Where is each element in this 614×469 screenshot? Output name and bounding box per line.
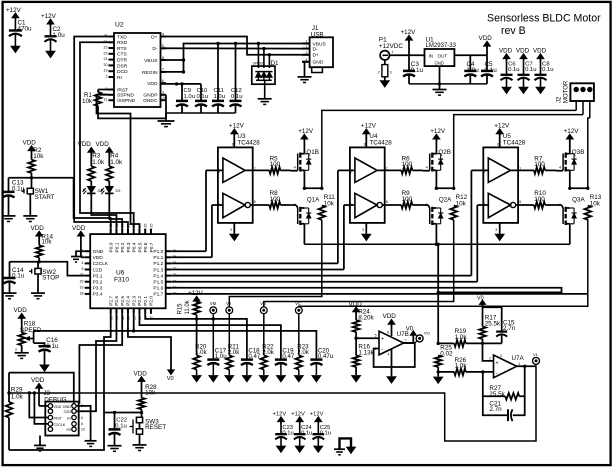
U4 buffer A (355, 158, 377, 182)
svg-text:4: 4 (388, 353, 390, 357)
resistor R20 1.0k (193, 355, 200, 369)
resistor R1 10k (98, 89, 109, 91)
wire P1.4 to U5 inA (171, 275, 471, 277)
U2 pin DTR (109, 59, 115, 61)
U6 pin P1.0 (166, 250, 172, 252)
svg-text:20: 20 (80, 279, 84, 283)
svg-text:P3.4: P3.4 (93, 292, 103, 298)
svg-text:Sensorless BLDC Motor: Sensorless BLDC Motor (487, 13, 601, 25)
+12V power arrow Q3B (566, 134, 573, 139)
svg-text:2: 2 (378, 71, 380, 75)
net tie jumper (340, 438, 352, 449)
+12V power arrow U4 (363, 129, 370, 134)
svg-text:2.7n: 2.7n (503, 325, 516, 332)
svg-text:+12V: +12V (564, 128, 580, 135)
U2 pin D+ (161, 36, 167, 38)
test point V1 (533, 357, 540, 364)
wire cap ground rail (166, 112, 236, 114)
wire motor phase rail 2 (454, 115, 583, 189)
svg-text:D+: D+ (151, 34, 158, 40)
svg-text:1.0k: 1.0k (455, 334, 468, 341)
ground under U2 (165, 118, 167, 121)
svg-text:Q3A: Q3A (572, 197, 585, 204)
test point VO (416, 335, 423, 342)
VDD power arrow R24 (353, 307, 360, 312)
wire phase B to VB (264, 220, 454, 307)
resistor R3 1.0k (90, 152, 92, 167)
svg-text:1.0k: 1.0k (195, 349, 207, 356)
J1 pin GND (302, 61, 310, 63)
svg-text:6: 6 (81, 416, 83, 420)
U3 buffer A (223, 158, 245, 182)
U6 pin P2.5 (121, 308, 123, 314)
wire U5 inputs (471, 169, 488, 171)
J1 pin D+ (302, 54, 310, 56)
U2 pin /RST (109, 89, 115, 91)
svg-text:1.13k: 1.13k (358, 349, 374, 356)
wire P1 to U1 IN (389, 54, 425, 56)
svg-text:Q1A: Q1A (307, 197, 320, 204)
LED D3 (108, 181, 110, 186)
wire P2.5 to J3 (79, 314, 122, 404)
svg-text:5: 5 (386, 200, 388, 204)
svg-text:VDD: VDD (147, 81, 158, 87)
resistor R17 25.5k (479, 327, 486, 340)
capacitor C2 1.0u (50, 19, 52, 36)
U2 pin TXD (109, 36, 115, 38)
driver IC U4 TC4428 (350, 147, 385, 223)
U6 pin P2.6 (115, 308, 117, 314)
U2 pin REGIN (161, 71, 167, 73)
svg-text:4: 4 (82, 261, 84, 265)
svg-text:0.47u: 0.47u (318, 353, 333, 360)
U6 pin P1.5 (166, 281, 172, 283)
wire U3 ground pin (233, 223, 235, 234)
transistor Q3B (562, 154, 564, 171)
svg-text:10k: 10k (145, 390, 156, 397)
svg-text:1.0u: 1.0u (467, 67, 480, 74)
capacitor C3 0.1u (408, 55, 410, 70)
wire U7B -input feedback (374, 343, 415, 367)
svg-text:0.1u: 0.1u (282, 431, 293, 437)
svg-text:0.1u: 0.1u (508, 67, 519, 73)
svg-text:0.1u: 0.1u (46, 343, 59, 350)
capacitor C20 0.47u (310, 358, 322, 361)
U6 pin P3.3 (85, 287, 91, 289)
svg-text:0.1u: 0.1u (320, 431, 331, 437)
wire aux J3 (9, 373, 74, 404)
wire D1 to ground (264, 80, 266, 98)
svg-text:P3.1: P3.1 (93, 273, 103, 279)
capacitor C4 1.0u (469, 55, 471, 70)
U6 pin P1.7 (166, 293, 172, 295)
svg-text:5: 5 (254, 200, 256, 204)
svg-text:VDD: VDD (516, 48, 530, 55)
resistor R21 2.0k (226, 355, 233, 369)
capacitor C15 2.7n (483, 307, 502, 331)
wire D2 to U6 (91, 193, 116, 228)
svg-text:1: 1 (306, 40, 308, 44)
resistor R24 8.20k (355, 311, 357, 320)
svg-text:VDD: VDD (533, 48, 547, 55)
svg-text:P2.2: P2.2 (137, 296, 143, 306)
U6 pin P0.1 (115, 229, 117, 235)
svg-text:2: 2 (489, 357, 491, 361)
VDD power arrow C8 (537, 54, 544, 59)
svg-text:+12V: +12V (229, 123, 245, 130)
U6 pin P2.7 (110, 308, 112, 314)
svg-text:1.0u: 1.0u (214, 94, 225, 100)
svg-text:Q1B: Q1B (306, 149, 319, 156)
svg-text:P0: P0 (66, 428, 71, 432)
+12V power arrow R15 (193, 296, 200, 301)
U6 pin GND (85, 250, 91, 252)
U6 pin P0.2 (121, 229, 123, 235)
svg-text:REGIN: REGIN (142, 70, 158, 76)
svg-text:25: 25 (149, 224, 153, 228)
wire U7B output to V0 (404, 342, 414, 344)
node phase 1 (303, 187, 306, 190)
VDD power arrow R14 (36, 231, 43, 236)
svg-text:P0.7: P0.7 (149, 242, 155, 252)
svg-text:19: 19 (104, 69, 108, 73)
U2 pin GNDP (161, 94, 167, 96)
resistor R13 10k (585, 206, 592, 220)
U6 pin P1.1 (166, 256, 172, 258)
svg-text:RI: RI (117, 75, 122, 81)
svg-text:2: 2 (106, 75, 108, 79)
U6 pin P2.3 (133, 308, 135, 314)
svg-text:VDD: VDD (383, 313, 397, 320)
svg-text:+12V: +12V (6, 7, 22, 14)
svg-text:20: 20 (149, 316, 153, 320)
wire U2 RXD to U6 (80, 42, 134, 228)
svg-text:11: 11 (104, 98, 108, 102)
svg-text:0.1u: 0.1u (231, 94, 242, 100)
svg-text:P0.6: P0.6 (143, 242, 149, 252)
svg-text:100: 100 (402, 196, 413, 203)
svg-text:+12V: +12V (273, 412, 287, 418)
svg-text:CTS: CTS (117, 52, 128, 58)
wire V1 return loop (9, 366, 536, 441)
ground under J1 (298, 76, 312, 78)
U2 pin /SSPND (109, 99, 115, 101)
svg-text:+12V: +12V (430, 128, 446, 135)
U5 buffer B inverting (488, 193, 510, 217)
VDD power arrow C6 (503, 54, 510, 59)
VDD power arrow C7 (520, 54, 527, 59)
resistor R14 10k (38, 235, 40, 246)
U6 pin C2CLK (85, 262, 91, 264)
svg-text:+12V: +12V (298, 128, 314, 135)
wire to U7A +input (483, 343, 494, 361)
resistor R12 10k (450, 206, 457, 220)
svg-text:0.47: 0.47 (282, 353, 294, 360)
svg-text:V0: V0 (167, 376, 174, 382)
svg-text:6: 6 (162, 79, 164, 83)
capacitor C19 0.47 (275, 358, 287, 361)
svg-text:P1.5: P1.5 (153, 280, 163, 286)
net arrow V0 at U7B (412, 335, 414, 343)
svg-text:23: 23 (104, 46, 108, 50)
svg-text:0.1u: 0.1u (485, 67, 498, 74)
svg-text:C2CLK: C2CLK (54, 423, 66, 427)
resistor R5 100 (245, 169, 269, 171)
svg-text:VDD: VDD (96, 141, 110, 148)
svg-text:7: 7 (405, 339, 407, 343)
svg-text:SSPND: SSPND (117, 93, 134, 99)
svg-text:P1.4: P1.4 (153, 273, 163, 279)
wire P1.0 to U3 inA (171, 250, 206, 252)
U2 pin RI (109, 76, 115, 78)
svg-text:VO: VO (424, 331, 430, 336)
svg-text:+12V: +12V (291, 412, 305, 418)
svg-text:DEBUG: DEBUG (44, 397, 66, 404)
svg-text:GND: GND (435, 60, 444, 65)
svg-text:25.5k: 25.5k (485, 320, 501, 327)
svg-text:P2.4: P2.4 (126, 296, 132, 306)
wire reset rail (104, 412, 142, 414)
wire STOP net (10, 262, 85, 276)
svg-text:4: 4 (306, 58, 308, 62)
wire U4 inputs (338, 169, 355, 171)
wire sense bus 1 (145, 314, 247, 360)
node phase 2 (435, 187, 438, 190)
J1 shield tab (312, 67, 323, 72)
svg-text:26: 26 (144, 224, 148, 228)
svg-text:6: 6 (497, 143, 499, 147)
svg-text:RESET: RESET (145, 424, 166, 431)
svg-text:+12V: +12V (310, 412, 324, 418)
svg-text:TC4428: TC4428 (237, 139, 260, 146)
wire U7B +input (356, 337, 379, 339)
U6 pin P3.1 (85, 275, 91, 277)
U5 buffer A (488, 158, 510, 182)
+12V power arrow C25 (315, 417, 322, 422)
wire U2 suspend to U6 (97, 95, 140, 229)
capacitor C17 1.0u (207, 358, 219, 361)
ground under SW1 (23, 215, 37, 217)
svg-text:GND: GND (313, 60, 324, 66)
net arrow V0 at U6 (128, 314, 171, 370)
svg-text:6: 6 (364, 143, 366, 147)
svg-text:MOTOR: MOTOR (564, 80, 570, 103)
test point VC (295, 307, 302, 314)
wire U2 GNDP GNDC to ground (165, 95, 167, 119)
svg-text:8.20k: 8.20k (358, 314, 374, 321)
VDD power arrow R18 (18, 313, 25, 318)
svg-text:1.0k: 1.0k (110, 159, 123, 166)
svg-text:SPEED: SPEED (20, 327, 42, 334)
wire sense bus 2 (139, 314, 280, 360)
connector J3 DEBUG (45, 402, 78, 436)
U6 pin P0.7 (150, 229, 152, 235)
wire U7B ground pin (391, 349, 393, 376)
svg-text:VDD: VDD (134, 370, 148, 377)
svg-text:1.0u: 1.0u (53, 32, 66, 39)
svg-text:VDD: VDD (499, 48, 513, 55)
capacitor C8 0.1u (540, 58, 542, 75)
svg-text:2.0k: 2.0k (262, 349, 274, 356)
+12V power arrow C1 (12, 13, 19, 18)
resistor R27 25.5k feedback (483, 372, 505, 396)
ground under SW2 (31, 292, 45, 294)
svg-text:2.7n: 2.7n (489, 406, 502, 413)
U2 pin VDD (161, 82, 167, 84)
svg-text:100: 100 (402, 161, 413, 168)
U6 pin C2D (85, 269, 91, 271)
ground under C14 (3, 292, 17, 294)
svg-text:P1.6: P1.6 (153, 286, 163, 292)
capacitor C10 0.1u (200, 84, 202, 101)
wire Q3B drain to node (569, 170, 571, 188)
wire P1.2 to U4 inA (171, 262, 338, 264)
svg-text:P3.2: P3.2 (93, 280, 103, 286)
svg-text:P1.3: P1.3 (153, 267, 163, 273)
net arrow V0 at R17 (480, 300, 486, 304)
svg-text:VBUS: VBUS (144, 58, 158, 64)
svg-text:4: 4 (294, 166, 296, 170)
wire phase A to VA (229, 220, 321, 307)
svg-text:VDD: VDD (31, 377, 45, 384)
svg-text:10k: 10k (82, 98, 93, 105)
svg-text:Q3B: Q3B (572, 149, 585, 156)
wire P1.3 to U4 inB (171, 269, 344, 271)
switch SW2 STOP (35, 268, 41, 274)
svg-text:4: 4 (426, 166, 428, 170)
svg-text:3: 3 (306, 51, 308, 55)
diode array D1 SP0503 (252, 66, 275, 84)
potentiometer R18 SPEED (21, 318, 23, 333)
svg-text:VDD: VDD (479, 35, 493, 42)
U2 pin D- (161, 47, 167, 49)
svg-text:2.0k: 2.0k (297, 349, 309, 356)
U2 pin SSPND (109, 94, 115, 96)
svg-text:4: 4 (559, 166, 561, 170)
svg-text:P0.4: P0.4 (132, 242, 138, 252)
svg-text:GNDP: GNDP (143, 93, 157, 99)
capacitor C23 0.1u (280, 421, 282, 434)
svg-text:+12V: +12V (41, 13, 57, 20)
ground under C22 (108, 445, 122, 447)
U2 pin CTS (109, 53, 115, 55)
wire P1.7 sense (171, 293, 588, 295)
svg-text:P1.1: P1.1 (153, 255, 163, 261)
svg-text:1: 1 (392, 50, 394, 54)
wire U5 ground pin (499, 223, 501, 234)
U6 pin P2.0 (150, 308, 152, 314)
svg-text:D1: D1 (271, 60, 280, 67)
svg-text:2.0k: 2.0k (228, 349, 240, 356)
svg-text:P1.0: P1.0 (153, 249, 163, 255)
test point VB (260, 307, 267, 314)
resistor R7 100 (511, 169, 535, 171)
wire Q3A source to rail (569, 224, 571, 245)
svg-text:P0.1: P0.1 (114, 242, 120, 252)
VDD power arrow J3 (36, 383, 43, 388)
svg-text:+: + (496, 360, 499, 366)
svg-text:VDD: VDD (31, 225, 45, 232)
transistor Q2B (429, 154, 431, 171)
svg-text:C22: C22 (116, 418, 127, 424)
svg-text:P2.5: P2.5 (120, 296, 126, 306)
svg-text:1.0k: 1.0k (455, 363, 468, 370)
U2 pin DCD (109, 70, 115, 72)
svg-text:10k: 10k (456, 200, 467, 207)
svg-text:D+: D+ (313, 53, 320, 59)
resistor R10 100 (516, 204, 535, 206)
svg-text:22: 22 (104, 51, 108, 55)
svg-text:10k: 10k (324, 200, 335, 207)
svg-text:8: 8 (387, 331, 389, 335)
wire P2.7 to reset rail (104, 314, 111, 413)
svg-text:470u: 470u (18, 26, 33, 33)
wire Q1A source to rail (303, 224, 305, 245)
svg-text:P2.6: P2.6 (114, 296, 120, 306)
regulator U1 LM2937-33 (425, 49, 455, 66)
capacitor C11 1.0u (217, 44, 219, 101)
U4 buffer B inverting (355, 193, 377, 217)
svg-text:+12V: +12V (401, 29, 417, 36)
svg-text:3: 3 (230, 228, 232, 232)
svg-text:VDD: VDD (349, 301, 363, 308)
wire Q2B drain to node (435, 170, 437, 188)
svg-text:18: 18 (138, 316, 142, 320)
U6 pin P2.2 (138, 308, 140, 314)
+12V power arrow Q1B (301, 134, 308, 139)
svg-text:VB: VB (260, 301, 266, 306)
svg-text:P2.7: P2.7 (109, 296, 115, 306)
svg-text:VDD: VDD (54, 405, 62, 409)
op-amp U7A (494, 355, 517, 378)
IC U2 CP2102 box (114, 33, 161, 107)
svg-text:V1: V1 (533, 352, 539, 357)
ground under SW3 (133, 444, 147, 446)
wire START net (9, 178, 111, 229)
ground under U1 (433, 89, 447, 91)
svg-text:20: 20 (104, 63, 108, 67)
svg-text:GNDC: GNDC (143, 98, 158, 104)
svg-text:3: 3 (500, 354, 502, 358)
svg-text:VDD: VDD (23, 140, 37, 147)
svg-text:P1.7: P1.7 (153, 292, 163, 298)
svg-text:P2.1: P2.1 (143, 296, 149, 306)
wire J3 C2CLK (34, 393, 48, 424)
svg-text:LM2937-33: LM2937-33 (426, 43, 457, 49)
U2 pin RTS (109, 47, 115, 49)
wire common source rail (304, 243, 569, 245)
resistor R11 10k (319, 206, 326, 220)
svg-text:10k: 10k (590, 200, 601, 207)
+12V power arrow U3 (231, 129, 238, 134)
wire J3 C2D (77, 314, 117, 411)
svg-text:100: 100 (270, 196, 281, 203)
wire P1.1 to U3 inB (171, 256, 212, 258)
svg-text:RTS: RTS (117, 46, 127, 52)
ground under J3 left (39, 436, 41, 446)
P1 body (382, 65, 388, 77)
wire U1 GND to ground (439, 66, 441, 89)
svg-text:DSR: DSR (117, 63, 128, 69)
+12V power arrow C24 (296, 417, 303, 422)
svg-text:VBUS: VBUS (313, 41, 327, 47)
wire U1 OUT (454, 54, 487, 56)
svg-text:100: 100 (270, 161, 281, 168)
resistor R2 10k (31, 150, 33, 160)
svg-text:TXD: TXD (117, 34, 127, 40)
U3 buffer B inverting (223, 193, 245, 217)
svg-text:GND: GND (93, 249, 104, 255)
